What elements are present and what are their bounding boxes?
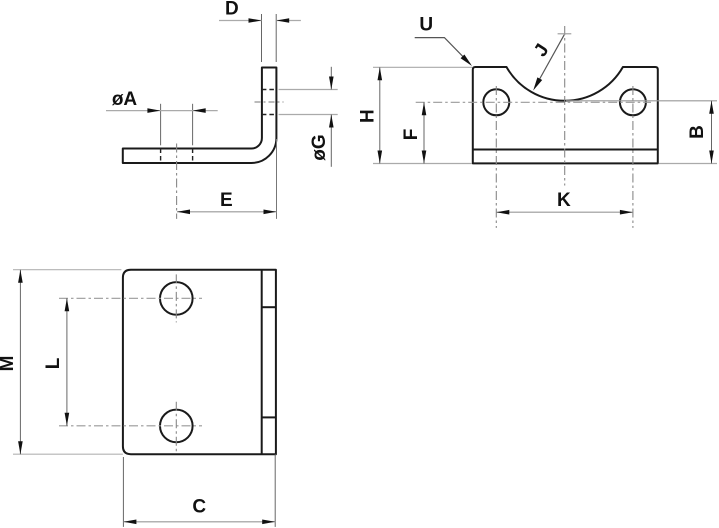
hidden hole edge (vertical leg, bottom) xyxy=(262,114,277,116)
centerline vertical bottom hole xyxy=(175,402,177,452)
hidden hole edge (horizontal leg, right) xyxy=(192,149,194,164)
saddle arc center mark xyxy=(558,33,572,35)
arrow M top xyxy=(18,270,23,283)
centerline horizontal through flange hole xyxy=(255,101,284,103)
arrow F bottom xyxy=(422,151,427,164)
arrow U xyxy=(461,55,472,67)
dimension øG line upper segment xyxy=(330,67,332,90)
centerline horizontal top hole xyxy=(59,297,202,299)
arrow K right xyxy=(620,210,633,215)
arrow H top xyxy=(378,67,383,80)
dimension D extension line right xyxy=(275,14,277,62)
plate outline (plan view) xyxy=(123,270,276,455)
vertical centerline saddle center xyxy=(564,26,566,186)
dimension K line xyxy=(496,211,633,213)
centerline vertical through leg hole xyxy=(176,144,178,219)
dimension H line xyxy=(379,67,381,163)
svg-text:B: B xyxy=(687,125,708,139)
dimension H top extension line xyxy=(373,66,472,68)
arrow F top xyxy=(422,102,427,115)
dimension C left extension line xyxy=(122,457,124,527)
svg-text:øG: øG xyxy=(309,134,330,160)
bracket outline (side view) xyxy=(123,68,277,164)
svg-text:F: F xyxy=(401,129,422,141)
arrow C right xyxy=(262,520,275,525)
arrow H bottom xyxy=(378,151,383,164)
bend tangent line (front view) xyxy=(473,149,658,151)
arrow øG top xyxy=(329,77,334,90)
arrow D right xyxy=(276,18,289,23)
svg-text:E: E xyxy=(220,190,233,211)
dimension C right extension line xyxy=(274,454,276,527)
dimension D extension line left xyxy=(261,14,263,62)
svg-text:L: L xyxy=(43,357,64,369)
svg-text:U: U xyxy=(419,15,433,36)
dimension øG extension line bottom xyxy=(279,114,338,116)
svg-text:K: K xyxy=(557,190,571,211)
dimension B bottom extension line xyxy=(659,163,717,165)
dimension B line xyxy=(711,101,713,164)
dimension B top extension line (from saddle low point) xyxy=(566,100,717,102)
arrow L top xyxy=(65,298,70,311)
svg-text:D: D xyxy=(225,0,239,20)
saddle edge projection upper xyxy=(262,306,276,308)
dimension M top extension line xyxy=(13,269,121,271)
vertical centerline left hole xyxy=(495,86,497,228)
bend line (plan view) xyxy=(261,270,263,455)
svg-text:M: M xyxy=(0,356,18,372)
dimension D line right segment xyxy=(276,20,301,22)
hole right (front view) xyxy=(620,89,646,115)
arrow C left xyxy=(123,520,136,525)
hole left (front view) xyxy=(483,89,509,115)
dimension C line xyxy=(123,521,275,523)
dimension L line xyxy=(66,298,68,426)
arrow B bottom xyxy=(709,151,714,164)
hidden hole edge (vertical leg, top) xyxy=(262,89,277,91)
dimension M line xyxy=(19,270,21,455)
dimension øA extension line left xyxy=(160,104,162,146)
arrow L bottom xyxy=(65,413,70,426)
centerline vertical top hole xyxy=(175,274,177,322)
arrow E right xyxy=(264,210,277,215)
dimension øA line xyxy=(106,110,218,112)
saddle edge projection lower xyxy=(262,416,276,418)
leader U line xyxy=(415,38,470,64)
arrow D left xyxy=(249,18,262,23)
arrow J xyxy=(533,77,542,90)
arrow øG bottom xyxy=(329,115,334,128)
bracket outline (front view) with saddle cutout xyxy=(473,67,658,163)
dimension H bottom extension line xyxy=(373,163,472,165)
dimension øA extension line right xyxy=(192,104,194,146)
dimension øG extension line top xyxy=(279,89,338,91)
dimension D line left segment xyxy=(219,20,262,22)
hidden hole edge (horizontal leg, left) xyxy=(160,149,162,164)
centerline horizontal bottom hole xyxy=(59,425,202,427)
leader J line xyxy=(539,35,564,81)
arrow øA left xyxy=(147,108,160,113)
dimension E right extension line xyxy=(276,139,278,219)
dimension F line xyxy=(423,102,425,163)
svg-text:øA: øA xyxy=(112,89,138,110)
arrow øA right xyxy=(193,108,206,113)
horizontal centerline through front holes xyxy=(416,101,651,103)
arrow M bottom xyxy=(18,441,23,454)
dimension øG line lower segment xyxy=(330,115,332,167)
vertical centerline right hole xyxy=(632,86,634,228)
arrow B top xyxy=(709,101,714,114)
arrow K left xyxy=(496,210,509,215)
arrow E left xyxy=(177,210,190,215)
dimension E line xyxy=(177,211,277,213)
svg-text:H: H xyxy=(357,109,378,123)
dimension M bottom extension line xyxy=(13,453,123,455)
svg-text:C: C xyxy=(192,497,206,518)
hole top (plan view) xyxy=(160,282,193,315)
hole bottom (plan view) xyxy=(160,410,193,443)
